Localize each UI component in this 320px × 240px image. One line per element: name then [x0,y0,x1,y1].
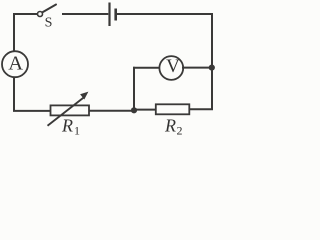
wire: right vertical (top-right corner down to R2 row) [211,13,213,110]
node: junction of voltmeter branch with right wire [209,65,215,71]
resistor R2 [156,104,190,114]
wire: junction up to voltmeter branch [133,67,135,111]
svg-text:A: A [8,53,23,75]
battery (long plate + short plate) [110,3,116,27]
svg-text:2: 2 [177,124,183,138]
rheostat R1 (resistor box with diagonal arrow) [48,92,90,126]
svg-text:S: S [45,16,53,31]
wire: junction node to resistor R2 [134,109,156,111]
wire: switch to battery [62,13,108,15]
wire: voltmeter branch left segment [133,67,161,69]
wire: battery to top-right corner [117,13,213,15]
wire: top-left horizontal (left corner to switch) [13,13,37,15]
svg-text:V: V [166,56,180,77]
svg-text:R: R [61,115,73,135]
node: junction of voltmeter branch with bottom wire [131,107,137,113]
switch S (pivot circle + open lever) [38,5,57,17]
voltmeter V [159,56,183,80]
svg-text:1: 1 [74,124,80,138]
wire: voltmeter to right junction node [182,67,212,69]
ammeter A [2,51,28,77]
wire: ammeter to bottom-left corner [13,78,15,111]
wire: bottom-left corner to rheostat R1 [13,110,51,112]
wire: R2 to bottom-right corner [189,108,213,110]
svg-text:R: R [164,116,176,136]
wire: R1 to junction node [89,110,134,112]
wire: left vertical (top-left corner to ammeter) [13,13,15,51]
